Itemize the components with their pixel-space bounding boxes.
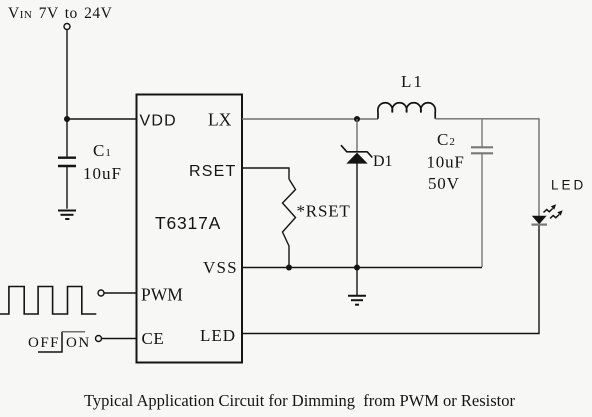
- inductor L1: [378, 103, 436, 119]
- wire RSET stub: [242, 168, 289, 179]
- svg-text:LX: LX: [208, 110, 232, 130]
- svg-text:CE: CE: [142, 329, 165, 348]
- svg-text:Typical Application Circuit fo: Typical Application Circuit for Dimming …: [84, 391, 516, 410]
- signal PWM waveform: [0, 287, 96, 315]
- ground (main): [348, 296, 366, 305]
- svg-text:50V: 50V: [428, 174, 460, 193]
- wire CE stub: [102, 338, 136, 340]
- wire LED pin run: [242, 224, 539, 334]
- svg-text:*RSET: *RSET: [297, 202, 351, 221]
- diode D1 (schottky): [341, 145, 372, 163]
- svg-text:D1: D1: [373, 153, 393, 170]
- svg-text:RSET: RSET: [189, 163, 236, 180]
- svg-text:LED: LED: [551, 178, 586, 193]
- wire VIN vertical: [66, 30, 68, 119]
- wire D1 top lead: [356, 119, 358, 152]
- terminal CE: [96, 336, 102, 342]
- svg-text:10uF: 10uF: [427, 153, 465, 172]
- svg-text:ON: ON: [66, 335, 91, 351]
- wire PWM stub: [104, 292, 136, 294]
- svg-text:VSS: VSS: [203, 258, 238, 277]
- svg-text:PWM: PWM: [141, 285, 183, 305]
- wire VDD: [67, 118, 136, 120]
- capacitor C1: [58, 119, 76, 209]
- signal CE OFF/ON step: [38, 332, 85, 352]
- svg-text:LED: LED: [200, 326, 236, 345]
- wire ground stem: [356, 268, 358, 296]
- ground (C1): [58, 211, 76, 220]
- svg-text:OFF: OFF: [28, 335, 60, 351]
- terminal VIN: [64, 24, 70, 30]
- svg-text:T6317A: T6317A: [155, 213, 221, 233]
- LED symbol: [532, 204, 563, 224]
- wire D1 bottom lead: [356, 163, 358, 268]
- node RSET-VSS junction: [286, 265, 292, 271]
- IC U1 T6317A: [137, 95, 243, 363]
- node D1-VSS junction: [354, 265, 360, 271]
- resistor RSET: [283, 179, 296, 267]
- svg-text:10uF: 10uF: [83, 164, 122, 183]
- terminal PWM: [98, 290, 104, 296]
- capacitor C2: [471, 119, 493, 267]
- svg-text:VDD: VDD: [140, 113, 177, 130]
- wire LX to node: [242, 118, 378, 120]
- wire top run to LED column: [435, 119, 539, 216]
- wire VSS run: [242, 267, 482, 269]
- node LX junction: [354, 116, 360, 122]
- node VDD junction: [64, 116, 70, 122]
